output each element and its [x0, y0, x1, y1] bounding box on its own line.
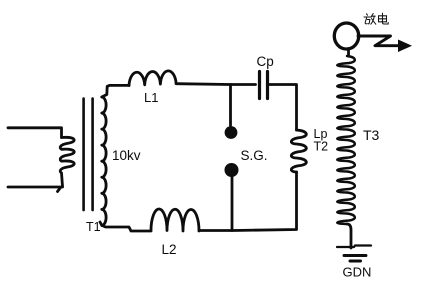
wire L1 to Cp [176, 82, 255, 86]
放 [367, 14, 368, 15]
discharge terminal topload [334, 23, 358, 49]
wire T1 bottom to L2 [100, 222, 151, 231]
svg-text:T1: T1 [86, 220, 101, 234]
wire spark gap top [229, 85, 232, 126]
svg-text:S.G.: S.G. [241, 148, 268, 163]
transformer T1 primary winding [60, 137, 74, 186]
inductor Lp (T2 primary) [291, 130, 306, 172]
svg-text:L1: L1 [144, 90, 158, 105]
svg-text:Cp: Cp [257, 54, 274, 69]
wire secondary top to L1 [102, 85, 129, 97]
电 [379, 16, 387, 22]
svg-text:T2: T2 [314, 140, 329, 154]
svg-text:GDN: GDN [343, 265, 372, 280]
svg-text:10kv: 10kv [112, 148, 141, 163]
label 放电 (discharge) drawn glyphs [364, 13, 388, 24]
transformer T1 secondary winding [102, 97, 106, 225]
inductor L1 [129, 71, 176, 86]
spark gap S.G. electrodes [225, 126, 239, 177]
coil T3 secondary [337, 56, 355, 224]
ground GDN [337, 246, 371, 248]
svg-text:T3: T3 [363, 127, 380, 143]
wire Cp to right corner [269, 85, 297, 131]
wire right side down and bottom [199, 172, 297, 231]
capacitor Cp [260, 72, 268, 99]
svg-text:L2: L2 [162, 242, 177, 257]
wire input bottom [8, 187, 63, 192]
discharge arrow [358, 36, 399, 46]
wire topload to T3 coil [347, 49, 350, 57]
inductor L2 [151, 209, 199, 231]
wire spark gap bottom [231, 177, 234, 231]
wire input top [8, 128, 62, 138]
transformer T1 core [84, 99, 93, 211]
wire T3 to ground [347, 224, 351, 248]
